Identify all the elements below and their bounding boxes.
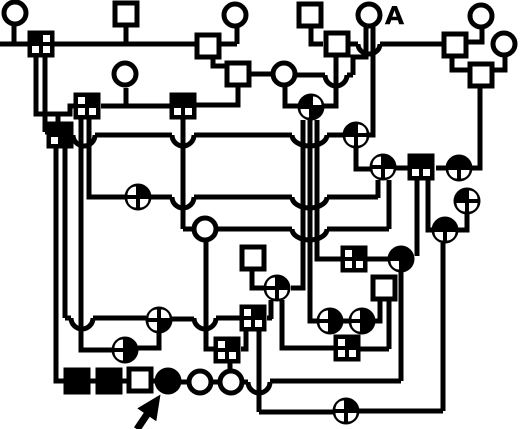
wire stem square I-4 xyxy=(124,26,129,44)
wire mate 383-421 xyxy=(396,166,410,171)
wire stem 467 xyxy=(458,214,467,230)
wire seg ws-bc xyxy=(152,379,156,384)
wire seg bc-c200 xyxy=(181,380,187,385)
wire stem 401 xyxy=(399,272,404,381)
wire stem circle (235,15) xyxy=(235,26,240,44)
wire stem 183 xyxy=(181,118,186,229)
wire elbow 88-138 xyxy=(89,118,125,197)
circle IX-4 filled proband xyxy=(155,368,182,395)
circle III-8 quadrant TL+BR xyxy=(298,94,325,121)
circle VII-6 right-half filled xyxy=(349,308,376,335)
wire y411 a xyxy=(259,410,333,415)
wire stem 421L xyxy=(415,180,420,256)
square IX-2 filled xyxy=(96,368,123,395)
wire y229 c xyxy=(327,227,389,232)
square III-5 male xyxy=(227,63,249,85)
wire stub 230 xyxy=(228,363,233,370)
wire stem 284 down xyxy=(285,86,298,106)
wire descent 481 xyxy=(472,87,480,168)
square IX-1 filled xyxy=(64,368,91,395)
wire hop y197 triple xyxy=(292,197,327,208)
square IV-9 top-half filled xyxy=(408,154,435,181)
wire drop 58 xyxy=(56,114,61,123)
circle II-13 female xyxy=(493,33,515,55)
wire y318 c xyxy=(172,317,194,322)
wire seg 330-362 xyxy=(343,319,349,324)
wire elbow 303 xyxy=(291,120,303,288)
circle I-6 female xyxy=(224,4,246,26)
wire stem 277R xyxy=(282,300,334,348)
circle V-3 female xyxy=(194,218,216,240)
wire mate y44 b xyxy=(380,42,442,47)
wire y382 b xyxy=(270,379,401,384)
wire hop y44 xyxy=(358,44,380,54)
square III-4 top-half filled xyxy=(170,93,197,120)
wire hop y318 x82 xyxy=(71,318,93,329)
wire stem 504 xyxy=(492,56,505,70)
circle I-1 female xyxy=(4,2,26,24)
wire y229 b xyxy=(218,227,292,232)
circle VI-5 quadrant TR xyxy=(264,275,291,302)
square II-11 male xyxy=(444,34,466,56)
wire y135 b xyxy=(194,133,292,138)
wire mate y44 a xyxy=(350,42,358,47)
wire y197 a xyxy=(151,195,172,200)
wire y318 b xyxy=(93,316,146,321)
wire y318 e xyxy=(267,316,272,321)
wire stem 253-318 R xyxy=(257,331,262,412)
wire y75 b xyxy=(347,73,353,78)
circle IV-10 top-half filled xyxy=(446,155,473,182)
wire seg c200-c231 xyxy=(213,380,218,385)
circle IX-5 female xyxy=(189,371,211,393)
wire hop y135 x183 xyxy=(172,135,194,146)
wire y75 a xyxy=(297,73,325,78)
square III-1 quadrant TR xyxy=(74,93,101,120)
wire elbow 82 xyxy=(81,118,112,350)
square I-8 male xyxy=(299,4,321,26)
wire mate y106 xyxy=(101,104,170,109)
square VIII-2 quadrant TR xyxy=(214,337,241,364)
wire elbow 56 xyxy=(56,147,64,381)
wire stem 384R xyxy=(387,300,392,349)
wire stem 383L xyxy=(376,180,381,198)
wire hop y318 x205 xyxy=(194,318,216,329)
wire y348 right xyxy=(360,347,389,352)
wire mate 354-401 xyxy=(367,257,388,262)
wire stem 126-74 xyxy=(124,88,129,106)
label A xyxy=(385,6,404,24)
wire hop y382 x259 xyxy=(248,382,270,393)
wire y229 a xyxy=(183,227,192,232)
wire stem 45 xyxy=(43,57,48,132)
square II-1 quadrant TL xyxy=(28,31,55,58)
wire seg 45-60 xyxy=(45,130,48,135)
circle VII-2 quadrant BR xyxy=(146,307,173,334)
circle VIII-1 right-half filled xyxy=(112,337,139,364)
wire stem circle I-2 xyxy=(12,26,17,44)
wire elbow 238 xyxy=(196,86,238,105)
circle IV-7 quadrant TL xyxy=(343,122,370,149)
wire y197 b xyxy=(194,195,292,200)
square III-12 male xyxy=(470,64,492,86)
wire mate I-2 to I-4 xyxy=(54,42,196,47)
wire hop y197 x183 xyxy=(172,197,194,208)
square II-8 male xyxy=(326,33,348,55)
square VIII-3 quadrant TR xyxy=(334,335,361,362)
circle IX-6 female xyxy=(220,371,242,393)
wire stem 337 xyxy=(324,57,336,106)
wire stem 277L xyxy=(269,300,274,319)
circle X-1 quadrant TR xyxy=(333,398,360,425)
wire stem 65 xyxy=(63,147,68,318)
wire y318 a xyxy=(65,316,71,321)
wire seg bs2-ws xyxy=(122,379,128,384)
wire stem 159 xyxy=(138,333,159,348)
wire descent 356-383 xyxy=(356,148,371,169)
wire stem 383R xyxy=(387,180,392,229)
wire y411 b xyxy=(359,409,443,414)
square VI-4 male xyxy=(242,247,264,269)
wire hop y135 x84 xyxy=(73,135,95,146)
wire hop y135 triple xyxy=(292,135,327,146)
wire stem 421R xyxy=(428,180,432,230)
wire elbow 317 xyxy=(317,120,341,259)
wire mate I-1 xyxy=(0,42,29,47)
wire mate 421-459 xyxy=(436,166,448,171)
wire stem 369R xyxy=(369,27,373,135)
wire hop y75 x336 xyxy=(325,75,347,86)
circle VI-8 filled exc BL xyxy=(388,246,415,273)
circle V-9 quadrant TL xyxy=(454,188,481,215)
wire stem 253-318 L xyxy=(241,331,246,349)
circle I-12 female xyxy=(470,5,492,27)
square II-5 male xyxy=(197,35,219,57)
square IV-1 filled exc BL xyxy=(47,122,74,149)
wire stem 481 xyxy=(467,28,482,42)
square IX-3 male xyxy=(129,369,151,391)
wire y382 a xyxy=(244,380,248,385)
wire hop y229 triple xyxy=(292,229,327,240)
wire mate 238-284 xyxy=(250,72,272,77)
wire y197 c xyxy=(327,195,378,200)
wire descent 455 xyxy=(452,57,469,70)
square VII-3 quadrant TR xyxy=(240,305,267,332)
circle III-6 female xyxy=(273,63,295,85)
wire y135 a xyxy=(95,133,172,138)
circle VII-5 right-half filled xyxy=(317,308,344,335)
square VI-6 quadrant TR xyxy=(341,246,368,273)
wire stem 384L xyxy=(375,300,380,321)
wire y318 d xyxy=(216,316,240,321)
wire y135 c xyxy=(327,133,343,138)
circle V-8 top-half filled xyxy=(432,217,459,244)
wire bus left xyxy=(36,57,74,114)
proband arrow xyxy=(134,395,161,429)
wire stem 310 xyxy=(311,27,323,44)
square VI-7 male xyxy=(373,277,395,299)
wire stem 253 xyxy=(252,271,264,288)
wire stem 445 down xyxy=(441,243,446,411)
circle III-2 female xyxy=(114,63,136,85)
wire seg bs1-bs2 xyxy=(90,379,96,384)
square I-4 male xyxy=(115,3,137,25)
wire zigzag 369L xyxy=(353,27,366,75)
wire stem 205 xyxy=(206,241,214,349)
circle IV-2 quadrant TR xyxy=(125,184,152,211)
wire descent 208-46 xyxy=(213,57,230,66)
wire elbow 310 xyxy=(310,120,317,321)
circle I-10 female A xyxy=(358,4,380,26)
circle IV-8 quadrant TR xyxy=(370,154,397,181)
wire mate II elbow h xyxy=(221,42,237,47)
